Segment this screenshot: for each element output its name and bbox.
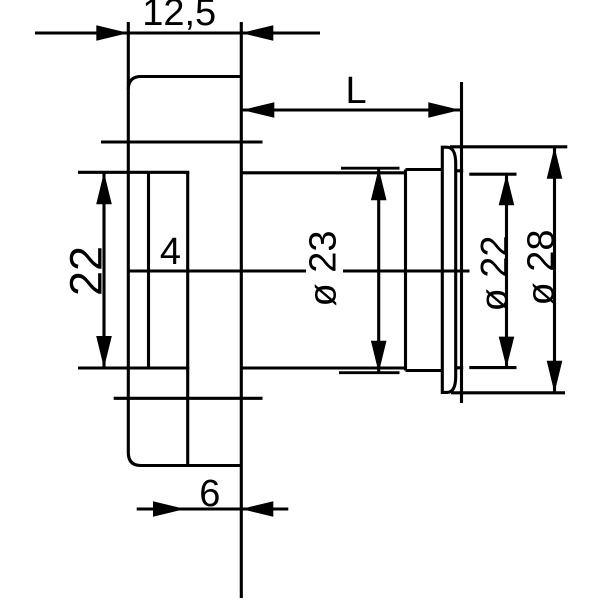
dimension line ø28 <box>553 147 556 393</box>
svg-text:ø 23: ø 23 <box>303 230 345 306</box>
svg-text:22: 22 <box>61 246 112 296</box>
flange left edge with extension line to 12,5 dimension <box>127 22 130 453</box>
thread crest overline (ø23) <box>341 167 400 170</box>
flange inner vertical line left <box>147 172 150 368</box>
hole bottom edge / 22 bottom extension line <box>78 366 189 369</box>
svg-text:ø 22: ø 22 <box>474 235 516 311</box>
arrowhead ø28 bottom <box>547 361 563 393</box>
arrowhead 12,5 left <box>96 25 128 41</box>
collar lip outline <box>442 147 455 392</box>
arrowhead ø22 top <box>499 174 515 205</box>
arrowhead 12,5 right <box>241 25 273 41</box>
arrowhead ø23 top <box>371 168 387 200</box>
arrowhead ø23 bottom <box>371 341 387 373</box>
flange top-left rounded corner <box>128 77 141 90</box>
svg-text:ø 28: ø 28 <box>521 229 563 305</box>
arrowhead ø22 bottom <box>499 337 515 368</box>
dimension line 22 <box>102 172 105 368</box>
lower hole line across flange <box>114 397 263 400</box>
thread crest underline (ø23) <box>339 371 400 374</box>
centre line left part <box>129 269 307 272</box>
upper hole line across flange <box>101 140 263 143</box>
flange bottom edge <box>140 464 243 467</box>
ø28 bottom extension line <box>451 391 565 394</box>
dimension line 12,5 <box>35 31 320 34</box>
barrel bottom edge <box>241 366 405 369</box>
neck bottom edge tick at end face <box>456 366 464 369</box>
dimension line ø22 <box>505 174 508 367</box>
flange top edge <box>140 75 243 78</box>
flange inner vertical line right <box>186 172 189 465</box>
neck top edge tick at end face <box>456 169 464 172</box>
dimension line 6 <box>137 507 289 510</box>
dimension line ø23 <box>377 168 380 373</box>
end face line / L extension line <box>460 82 463 403</box>
arrowhead L right <box>428 102 460 118</box>
svg-text:6: 6 <box>199 473 220 515</box>
svg-text:4: 4 <box>160 231 181 273</box>
svg-text:12,5: 12,5 <box>142 0 216 34</box>
arrowhead 6 right <box>241 501 273 517</box>
neck bottom edge (ø22 section) <box>406 369 443 372</box>
arrowhead 6 left <box>153 501 185 517</box>
centre line right part <box>343 269 470 272</box>
barrel top edge <box>241 171 405 174</box>
arrowhead L left <box>242 102 274 118</box>
step line between barrel and neck <box>404 170 407 371</box>
flange right edge with extension lines (12,5 dim top, 6 dim bottom) <box>240 22 243 598</box>
arrowhead ø28 top <box>547 147 563 179</box>
arrowhead 22 bottom <box>96 336 112 368</box>
hole top edge / 22 top extension line <box>78 171 189 174</box>
ø28 top extension line <box>450 145 567 148</box>
neck top edge (ø22 section) <box>406 168 443 171</box>
arrowhead 22 top <box>96 172 112 204</box>
svg-text:L: L <box>346 70 367 112</box>
ø22 bottom extension line <box>469 366 516 369</box>
flange bottom-left rounded corner <box>128 453 141 466</box>
dimension line L <box>242 108 460 111</box>
ø22 top extension line <box>469 173 516 176</box>
